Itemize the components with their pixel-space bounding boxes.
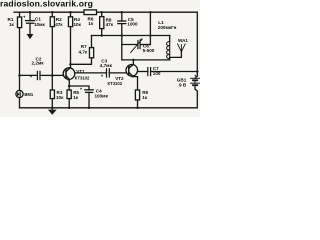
resistor R9: [135, 90, 148, 108]
capacitor C5: [118, 12, 138, 35]
svg-text:КТ3102: КТ3102: [75, 75, 90, 80]
wire right border: [195, 12, 197, 108]
capacitor C2: [20, 56, 53, 79]
svg-text:+: +: [101, 73, 104, 78]
antenna WA1: [170, 38, 189, 58]
battery GB1: [177, 74, 200, 88]
capacitor C7: [138, 66, 198, 76]
variable capacitor C6: [122, 38, 155, 53]
svg-text:1000: 1000: [127, 21, 138, 26]
svg-text:1к: 1к: [73, 95, 79, 100]
wire bus drop: [149, 12, 151, 44]
svg-text:GB1: GB1: [177, 77, 187, 82]
junction dots: [18, 11, 198, 109]
svg-text:C1: C1: [35, 17, 41, 22]
svg-text:200мкГн: 200мкГн: [158, 25, 177, 30]
wire tank bottom: [122, 59, 170, 61]
microphone BM1: [16, 90, 34, 107]
svg-text:10к: 10к: [56, 95, 64, 100]
svg-text:+: +: [23, 15, 26, 20]
resistor R2: [50, 12, 63, 27]
ground under bottom rail: [48, 108, 57, 115]
svg-text:4,7мк: 4,7мк: [100, 63, 113, 68]
svg-text:КТ3102: КТ3102: [108, 81, 123, 86]
wire collector VT2 to tank: [132, 60, 134, 64]
transistor VT1: [63, 68, 90, 81]
wire R2 down to base node: [51, 27, 53, 90]
svg-text:9 В: 9 В: [179, 83, 187, 88]
wire collector VT1: [70, 27, 72, 68]
svg-text:+: +: [80, 87, 83, 92]
svg-text:BM1: BM1: [24, 92, 34, 97]
svg-text:10к: 10к: [74, 22, 82, 27]
ground under C1: [27, 34, 34, 39]
resistor R8: [100, 12, 114, 35]
wire emitter VT2 down: [133, 77, 137, 90]
svg-text:1к: 1к: [9, 22, 15, 27]
svg-text:100мк: 100мк: [95, 94, 109, 99]
svg-text:5-500: 5-500: [143, 48, 155, 53]
svg-text:1к: 1к: [142, 95, 148, 100]
svg-text:4,7к: 4,7к: [79, 50, 88, 55]
title text: [0, 0, 93, 8]
wire base VT1: [52, 74, 64, 76]
transistor VT2: [108, 64, 138, 86]
resistor R6 (in top rail): [84, 10, 97, 26]
svg-text:100: 100: [153, 71, 161, 76]
wire tank left: [121, 36, 123, 60]
resistor R7: [71, 36, 94, 65]
capacitor C4: [69, 86, 108, 108]
svg-text:radioslon.slovarik.org: radioslon.slovarik.org: [0, 0, 93, 8]
wire bottom rail: [20, 107, 198, 109]
resistor R1: [8, 12, 22, 27]
wire R1 to BM1: [19, 28, 21, 91]
inductor L1: [158, 20, 177, 60]
svg-text:10мк: 10мк: [34, 22, 46, 27]
resistor R4: [68, 12, 81, 27]
svg-text:1к: 1к: [88, 21, 94, 26]
wire emitter VT1 to R5: [68, 80, 70, 86]
svg-text:47к: 47к: [106, 22, 114, 27]
resistor R3: [50, 90, 64, 108]
svg-text:R7: R7: [81, 44, 87, 49]
wire tank top: [92, 35, 170, 37]
svg-text:WA1: WA1: [178, 38, 188, 43]
svg-text:2,2мк: 2,2мк: [32, 61, 45, 66]
svg-text:47к: 47к: [55, 22, 63, 27]
capacitor C1: [23, 12, 46, 34]
svg-text:+: +: [30, 74, 33, 79]
resistor R5: [67, 86, 79, 108]
capacitor C3: [75, 58, 126, 78]
wire top rail: [14, 11, 197, 13]
